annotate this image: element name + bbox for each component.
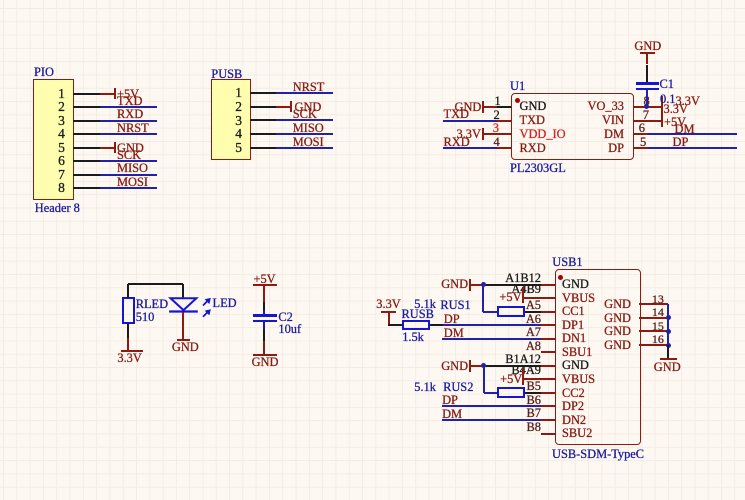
GND power port above C1 bbox=[646, 53, 648, 65]
USB1 pin name DP1 bbox=[562, 319, 584, 332]
PIO pin 6 number bbox=[0, 154, 65, 167]
wire +5V to C2 bbox=[263, 302, 265, 310]
net label DP / wire to USB1 A6 bbox=[444, 313, 460, 326]
RUS2 designator bbox=[443, 381, 473, 394]
USB1 pin name GND bbox=[562, 359, 589, 372]
wire C1 bottom to U1 pin 8 bbox=[646, 90, 648, 107]
USB1 pin designator A1B12 bbox=[421, 272, 541, 285]
vertical bus joining pins 13-16 bbox=[667, 304, 669, 345]
IC U1 designator bbox=[510, 80, 525, 93]
PUSB pin 5 stub bbox=[250, 147, 276, 149]
net label SCK / wire (PUSB pin 3) bbox=[276, 119, 333, 121]
PIO pin 7 number bbox=[0, 168, 65, 181]
net label MISO / wire (PIO pin 7) bbox=[100, 174, 157, 176]
USB1 pin name GND (right 15) bbox=[511, 325, 631, 338]
USB1 pin designator B6 bbox=[421, 394, 541, 407]
PUSB pin 4 stub bbox=[250, 133, 276, 135]
USB1 pin name SBU1 bbox=[562, 346, 592, 359]
USB1 pin designator A4B9 bbox=[421, 283, 541, 296]
USB1 pin designator A5 bbox=[421, 299, 541, 312]
+5V power port at USB1 A4B9 bbox=[499, 291, 521, 304]
USB1 left pin stub row 1 bbox=[541, 284, 556, 286]
USB1 left pin stub row 8 bbox=[541, 378, 556, 380]
PIO pin 2 stub bbox=[73, 106, 100, 108]
U1 pin name VIN bbox=[504, 114, 624, 127]
PIO pin 5 stub bbox=[73, 147, 100, 149]
wire LED cathode to GND bbox=[182, 312, 184, 339]
junction at U1 pin 8 / C1 bbox=[644, 104, 649, 109]
U1 pin name TXD bbox=[520, 114, 545, 127]
GND power port on U1 pin 1 bbox=[455, 101, 482, 114]
resistor RUS2 body bbox=[497, 387, 525, 398]
junction GND/RUS2 bbox=[481, 363, 486, 368]
USB1 pin designator B5 bbox=[421, 380, 541, 393]
C2 value 10uf bbox=[278, 323, 301, 336]
USB1 pin name DN2 bbox=[562, 414, 586, 427]
wire C2 to GND bbox=[263, 322, 265, 329]
wire RXD to U1 pin 4 bbox=[443, 147, 497, 149]
GND power port at USB1 B1A12 bbox=[441, 360, 468, 373]
C2 designator bbox=[278, 311, 292, 324]
USB1 comment USB-SDM-TypeC bbox=[552, 448, 644, 461]
PUSB pin 3 number bbox=[122, 114, 242, 127]
U1 pin 5 stub + DP wire bbox=[634, 147, 648, 149]
U1 pin 6 number bbox=[639, 122, 645, 135]
LED designator text bbox=[213, 297, 237, 310]
USB1 pin designator A6 bbox=[421, 313, 541, 326]
RUS1 designator bbox=[440, 299, 470, 312]
USB1 pin 16 number bbox=[652, 333, 664, 346]
U1 pin 6 stub + DM wire bbox=[634, 133, 648, 135]
U1 pin 3 number bbox=[493, 122, 499, 135]
net label TXD at U1 bbox=[444, 108, 469, 121]
net label MOSI / wire (PIO pin 8) bbox=[100, 187, 157, 189]
+5V power port on PIO pin 1 bbox=[100, 93, 115, 95]
USB1 left pin stub row 12 bbox=[541, 433, 556, 435]
USB1 pin name GND bbox=[562, 278, 589, 291]
junction pin 15 bbox=[666, 329, 671, 334]
RUS1 value 5.1k bbox=[414, 298, 436, 311]
U1 pin 1 number bbox=[495, 95, 501, 108]
USB1 left pin stub row 3 bbox=[541, 311, 556, 313]
RUSB value 1.5k bbox=[402, 331, 424, 344]
USB1 left pin stub row 10 bbox=[541, 405, 556, 407]
GND power port below USB1 pins bbox=[660, 358, 676, 360]
net label MOSI / wire (PUSB pin 5) bbox=[276, 147, 333, 149]
net label DM at U1 bbox=[675, 123, 695, 136]
connector PUSB body bbox=[211, 79, 250, 161]
PIO pin 4 stub bbox=[73, 133, 100, 135]
wire RUSB to DP net bbox=[430, 324, 443, 326]
net label MISO / wire (PUSB pin 4) bbox=[276, 133, 333, 135]
U1 pin 7 wire to +5V rail bbox=[634, 120, 662, 122]
wire RUS1 to USB1 A5 bbox=[525, 311, 541, 313]
connector USB1 designator bbox=[552, 256, 582, 269]
U1 pin name VDD_IO bbox=[520, 128, 566, 141]
USB1 pin 13 number bbox=[652, 293, 664, 306]
RUS2 value 5.1k bbox=[414, 381, 436, 394]
net label DP / wire to USB1 B6 bbox=[442, 394, 458, 407]
USB1 left pin stub row 2 bbox=[541, 297, 556, 299]
USB1 left pin stub row 7 bbox=[541, 365, 556, 367]
USB1 pin name GND (right 16) bbox=[511, 339, 631, 352]
GND power port below C2 bbox=[253, 354, 277, 356]
PIO pin 1 number bbox=[0, 87, 65, 100]
USB1 pin designator B7 bbox=[421, 407, 541, 420]
3.3V / +5V power bars right of U1 bbox=[661, 96, 663, 128]
U1 pin name RXD bbox=[520, 142, 546, 155]
U1 comment PL2303GL bbox=[510, 162, 566, 175]
3.3V power port on U1 pin 3 bbox=[457, 128, 481, 141]
capacitor C1 bbox=[636, 82, 659, 84]
USB1 pin 13 wire bbox=[639, 303, 668, 305]
wire RLED top to LED anode bbox=[127, 284, 129, 297]
USB1 left pin stub row 6 bbox=[541, 351, 556, 353]
USB1 pin name GND (right 13) bbox=[511, 298, 631, 311]
USB1 left pin stub row 5 bbox=[541, 338, 556, 340]
USB1 pin 14 wire bbox=[639, 317, 668, 319]
net label RXD / wire (PIO pin 3) bbox=[100, 120, 157, 122]
net label NRST / wire (PUSB pin 1) bbox=[276, 92, 333, 94]
PUSB pin 3 stub bbox=[250, 119, 276, 121]
USB1 pin name CC2 bbox=[562, 387, 585, 400]
U1 pin 4 number bbox=[494, 136, 500, 149]
C1 designator bbox=[660, 78, 674, 91]
power net texts near C1 bbox=[676, 95, 700, 108]
resistor RLED body bbox=[122, 297, 135, 324]
PUSB pin 1 stub bbox=[250, 92, 276, 94]
header PIO title bbox=[34, 66, 54, 79]
wire GND to USB1 A1B12 bbox=[482, 284, 541, 286]
U1 pin 8 wire to 3.3V rail bbox=[634, 106, 662, 108]
USB1 pin designator A7 bbox=[421, 326, 541, 339]
PUSB pin 4 number bbox=[122, 127, 242, 140]
wire junction down to RUS2 bbox=[483, 366, 485, 393]
U1 pin 8 number bbox=[644, 95, 650, 108]
wire 3.3V to RUSB bbox=[388, 324, 402, 326]
USB1 pin designator B1A12 bbox=[421, 353, 541, 366]
USB1 pin 15 number bbox=[652, 320, 664, 333]
U1 pin name GND bbox=[520, 100, 547, 113]
PIO pin 2 number bbox=[0, 100, 65, 113]
U1 pin name VO_33 bbox=[504, 100, 624, 113]
resistor RUSB body bbox=[402, 320, 430, 330]
PIO pin 5 number bbox=[0, 141, 65, 154]
PIO pin 3 stub bbox=[73, 120, 100, 122]
USB1 pin name VBUS bbox=[562, 292, 595, 305]
PUSB pin 1 number bbox=[122, 86, 242, 99]
USB1 pin name DP2 bbox=[562, 400, 584, 413]
U1 pin 7 number bbox=[643, 109, 649, 122]
U1 origin dot bbox=[515, 98, 520, 103]
net label DM / wire to USB1 A7 bbox=[444, 327, 464, 340]
junction GND/RUS1 bbox=[481, 282, 486, 287]
USB1 pin name DN1 bbox=[562, 332, 586, 345]
USB1 pin 14 number bbox=[652, 306, 664, 319]
GND power port on PUSB pin 2 bbox=[276, 106, 292, 108]
PIO pin 8 number bbox=[0, 181, 65, 194]
net label SCK / wire (PIO pin 6) bbox=[100, 160, 157, 162]
RLED value 510 bbox=[136, 311, 155, 324]
junction pin 14 bbox=[666, 315, 671, 320]
net label DM / wire to USB1 B7 bbox=[442, 408, 462, 421]
USB1 left pin stub row 4 bbox=[541, 324, 556, 326]
capacitor C2 bbox=[253, 314, 277, 316]
net label TXD / wire (PIO pin 2) bbox=[100, 106, 157, 108]
USB1 pin designator B4A9 bbox=[421, 364, 541, 377]
net label NRST / wire (PIO pin 4) bbox=[100, 133, 157, 135]
+5V power port above C2 bbox=[254, 273, 276, 286]
PIO pin 6 stub bbox=[73, 160, 100, 162]
USB1 pin designator B8 bbox=[421, 421, 541, 434]
U1 pin name DP bbox=[504, 142, 624, 155]
PIO pin 8 stub bbox=[73, 187, 100, 189]
USB1 pin name CC1 bbox=[562, 305, 585, 318]
wire RLED bottom to 3.3V bbox=[127, 324, 129, 338]
connector PIO (Header 8) body bbox=[33, 79, 75, 201]
3.3V power port below RLED bbox=[121, 350, 144, 352]
GND power port at USB1 A1B12 bbox=[441, 278, 468, 291]
PIO pin 4 number bbox=[0, 127, 65, 140]
PUSB pin 2 number bbox=[122, 100, 242, 113]
U1 pin name DM bbox=[504, 128, 624, 141]
PIO pin 1 stub bbox=[73, 93, 100, 95]
PIO pin 7 stub bbox=[73, 174, 100, 176]
USB1 left pin stub row 11 bbox=[541, 419, 556, 421]
wire RUS2 to USB1 B5 bbox=[525, 392, 541, 394]
junction pin 16 bbox=[666, 343, 671, 348]
USB1 origin dot bbox=[558, 275, 563, 280]
U1 pin 2 number bbox=[494, 109, 500, 122]
USB1 pin name SBU2 bbox=[562, 427, 592, 440]
USB1 pin name VBUS bbox=[562, 373, 595, 386]
wire GND to USB1 B1A12 bbox=[482, 365, 541, 367]
wire junction down to RUS1 bbox=[482, 285, 484, 312]
U1 pin 5 number bbox=[640, 136, 646, 149]
GND power port below LED bbox=[177, 339, 190, 341]
wire C1 top to GND bbox=[646, 65, 648, 83]
net label RXD at U1 bbox=[444, 136, 470, 149]
C1 value 0.1 bbox=[660, 93, 676, 106]
wire TXD to U1 pin 2 bbox=[443, 120, 497, 122]
+5V power port at USB1 B4A9 bbox=[500, 373, 522, 386]
USB1 pin 15 wire bbox=[639, 330, 668, 332]
header PUSB title bbox=[211, 68, 242, 81]
GND power port on PIO pin 5 bbox=[100, 147, 115, 149]
PIO comment Header 8 bbox=[35, 202, 80, 215]
3.3V power port left of RUSB bbox=[376, 298, 400, 311]
RLED designator bbox=[136, 298, 168, 311]
USB1 left pin stub row 9 bbox=[541, 392, 556, 394]
IC U1 body (PL2303GL) bbox=[511, 93, 634, 160]
net label DP at U1 bbox=[673, 136, 689, 149]
connector USB1 body (USB-SDM-TypeC) bbox=[555, 269, 641, 445]
PUSB pin 2 stub bbox=[250, 106, 276, 108]
RUSB designator bbox=[402, 308, 434, 321]
USB1 pin name GND (right 14) bbox=[511, 312, 631, 325]
resistor RUS1 body bbox=[497, 306, 525, 317]
PUSB pin 5 number bbox=[122, 141, 242, 154]
USB1 pin designator A8 bbox=[421, 340, 541, 353]
PIO pin 3 number bbox=[0, 114, 65, 127]
USB1 pin 16 wire bbox=[639, 344, 668, 346]
wire bus to GND bbox=[667, 345, 669, 358]
LED D1 symbol bbox=[160, 290, 220, 324]
